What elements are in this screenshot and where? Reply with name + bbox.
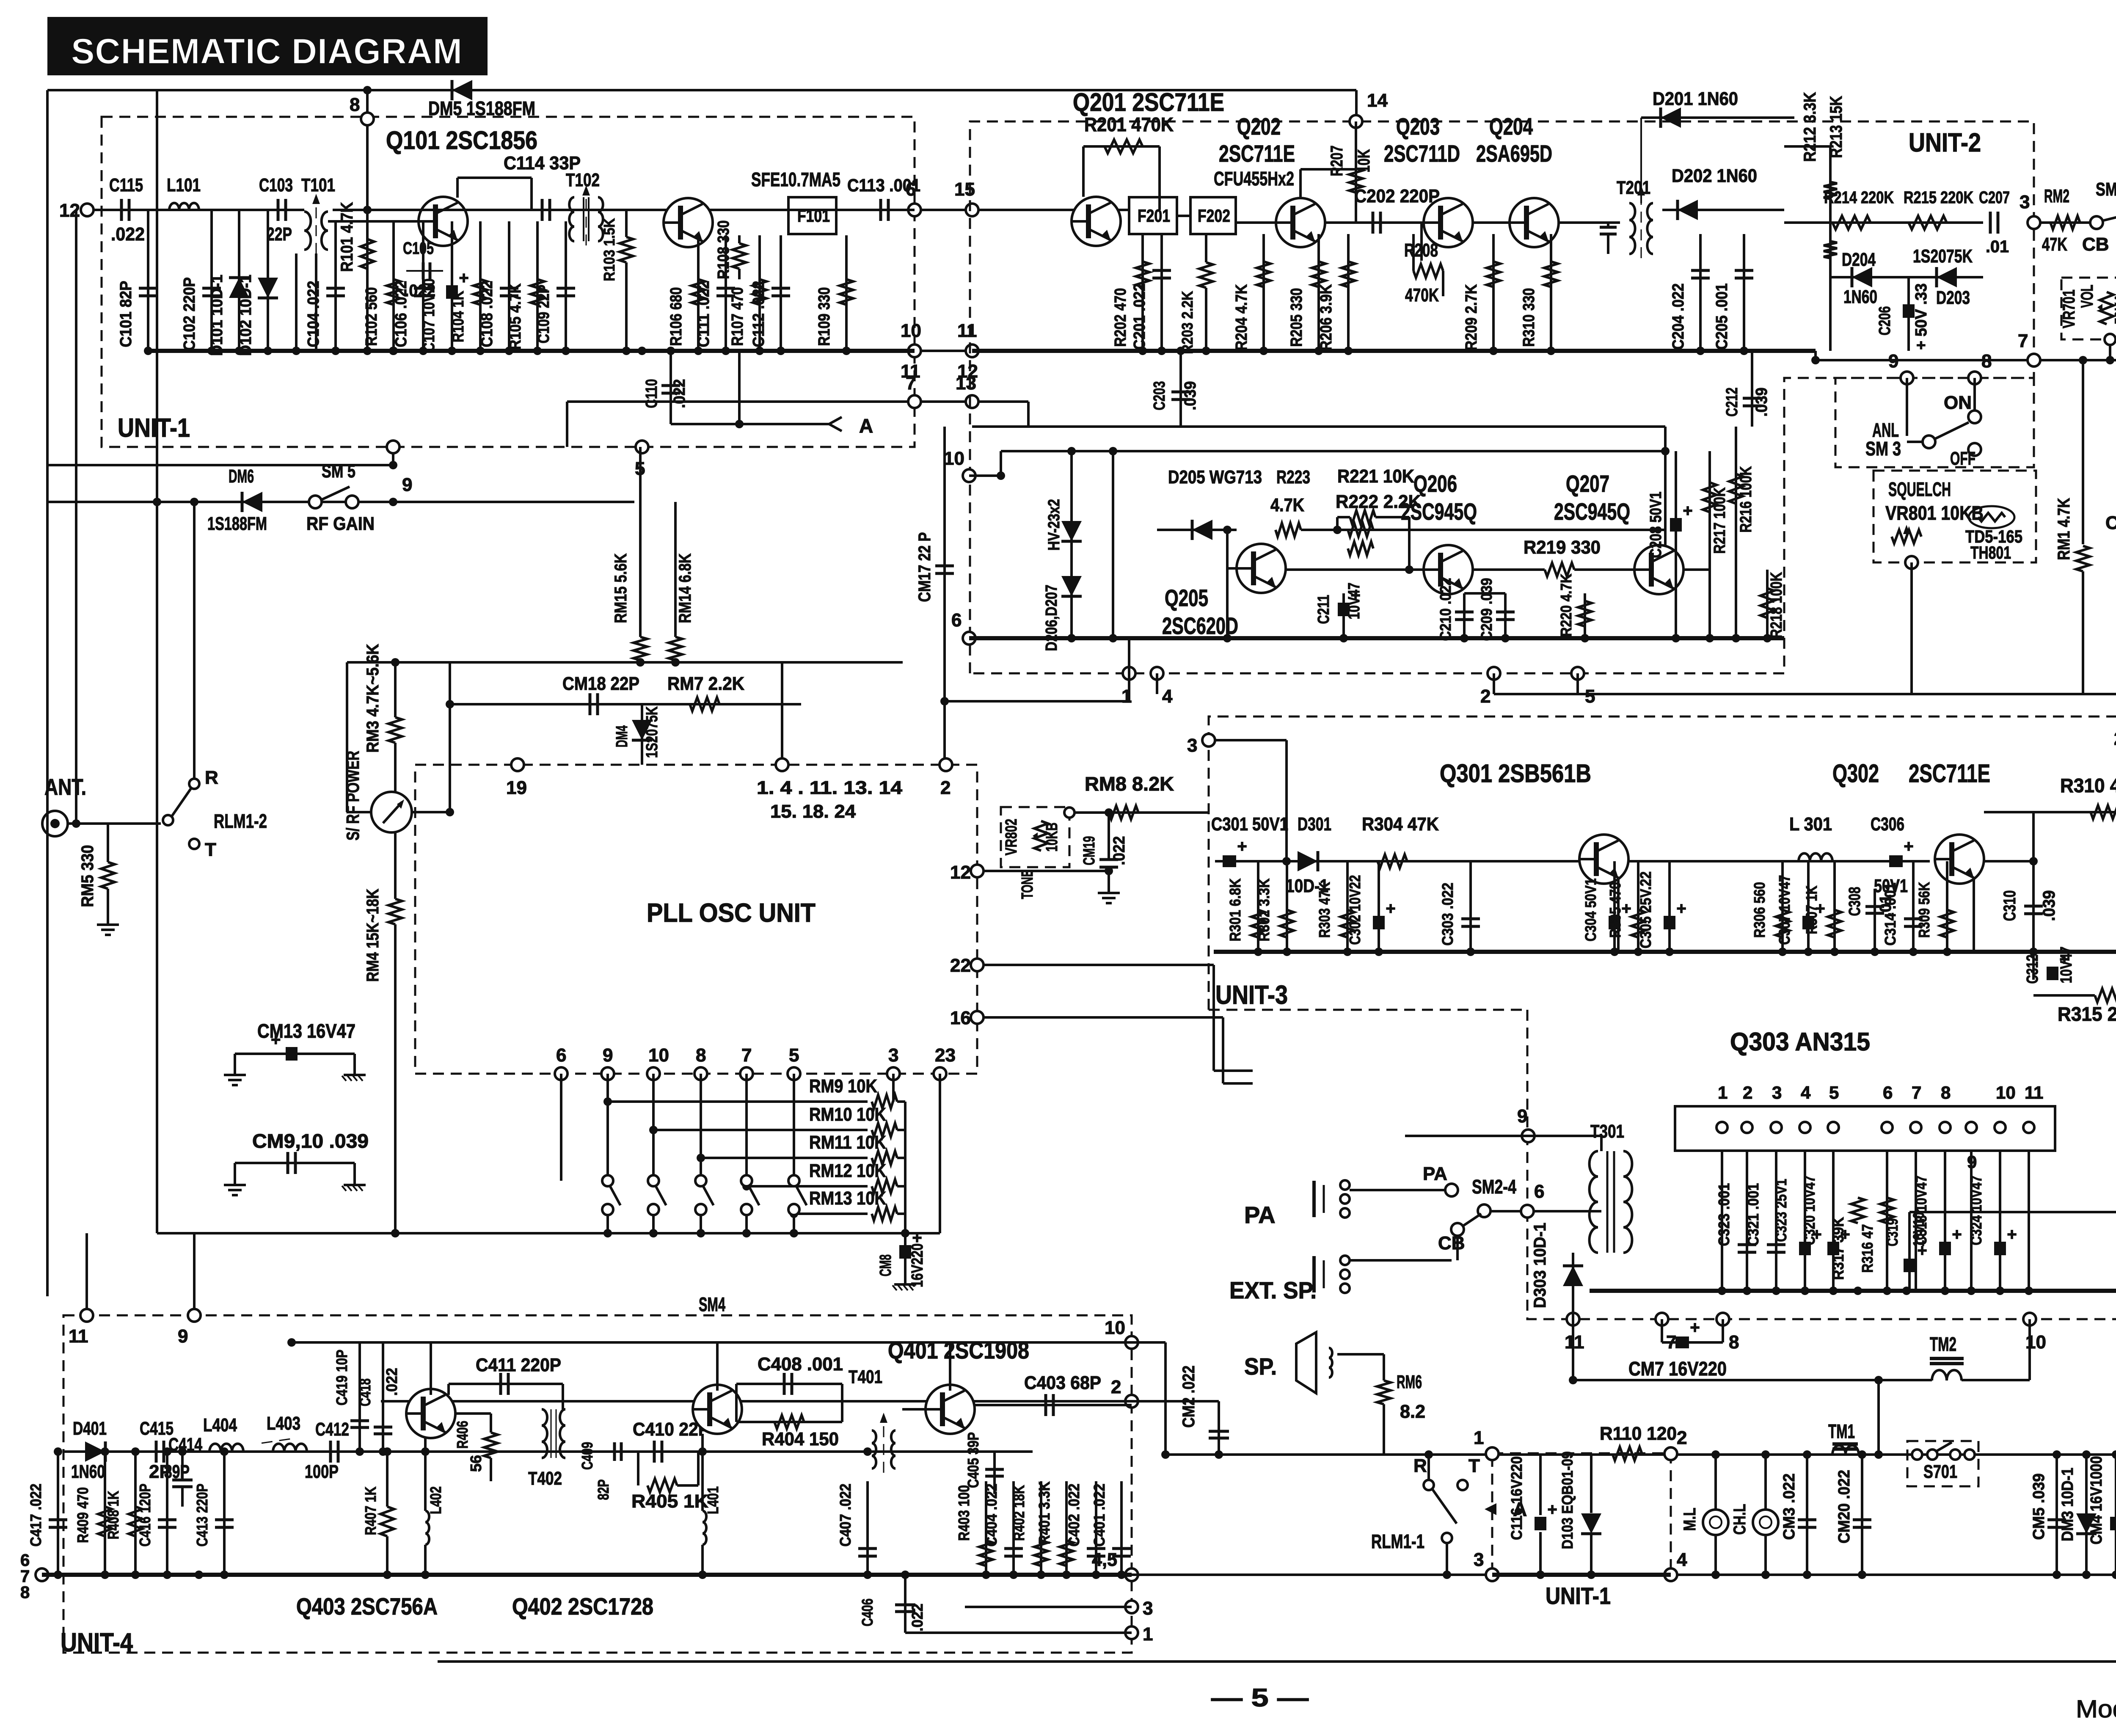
svg-text:+: + <box>1237 837 1247 856</box>
svg-text:56: 56 <box>467 1455 485 1472</box>
svg-text:R110 120: R110 120 <box>1600 1423 1677 1444</box>
svg-text:6: 6 <box>1883 1083 1893 1102</box>
svg-text:4.7K: 4.7K <box>1270 495 1304 515</box>
svg-text:D201 1N60: D201 1N60 <box>1653 88 1738 109</box>
svg-text:R216 100K: R216 100K <box>1737 466 1755 532</box>
svg-text:C419 10P: C419 10P <box>333 1350 350 1405</box>
svg-text:CM2 .022: CM2 .022 <box>1179 1366 1198 1428</box>
svg-text:R407 1K: R407 1K <box>362 1487 379 1535</box>
svg-text:CM19: CM19 <box>1080 836 1098 865</box>
svg-text:C212: C212 <box>1723 388 1741 417</box>
svg-text:4: 4 <box>1801 1083 1811 1102</box>
svg-text:T401: T401 <box>849 1367 882 1387</box>
svg-text:D204: D204 <box>1842 249 1876 270</box>
svg-text:.039: .039 <box>1182 381 1199 411</box>
svg-text:R107 470: R107 470 <box>729 287 747 346</box>
svg-text:HV-23x2: HV-23x2 <box>1045 499 1063 551</box>
svg-text:S701: S701 <box>1923 1461 1957 1482</box>
svg-text:100P: 100P <box>305 1461 339 1482</box>
svg-text:5: 5 <box>789 1045 799 1066</box>
svg-text:C409: C409 <box>579 1442 596 1470</box>
svg-text:+: + <box>271 1031 281 1049</box>
svg-text:470K: 470K <box>1405 285 1439 306</box>
svg-text:C412: C412 <box>315 1419 349 1440</box>
svg-text:9: 9 <box>402 474 412 495</box>
svg-text:2: 2 <box>1111 1377 1121 1397</box>
svg-text:D301: D301 <box>1298 814 1331 835</box>
svg-text:8: 8 <box>1981 351 1992 372</box>
svg-text:22P: 22P <box>267 224 292 245</box>
svg-text:TM2: TM2 <box>1930 1333 1956 1355</box>
svg-text:C304 50V1: C304 50V1 <box>1582 879 1599 942</box>
svg-text:+: + <box>1904 837 1913 856</box>
svg-text:R214 220K: R214 220K <box>1824 188 1894 207</box>
svg-text:R309 56K: R309 56K <box>1915 882 1933 938</box>
svg-text:Q403 2SC756A: Q403 2SC756A <box>296 1593 438 1620</box>
svg-text:+: + <box>459 269 468 287</box>
svg-text:+: + <box>2007 1225 2017 1244</box>
svg-text:C207: C207 <box>1979 188 2010 207</box>
svg-text:R305 470: R305 470 <box>1606 882 1624 938</box>
svg-text:.022: .022 <box>111 224 145 245</box>
svg-text:3: 3 <box>888 1045 898 1066</box>
svg-text:R219 330: R219 330 <box>1524 537 1601 558</box>
svg-text:RF GAIN: RF GAIN <box>306 513 375 534</box>
svg-text:D206,D207: D206,D207 <box>1043 585 1061 651</box>
svg-text:C102 220P: C102 220P <box>181 277 198 351</box>
svg-text:9: 9 <box>178 1326 188 1347</box>
svg-text:11: 11 <box>2025 1083 2043 1102</box>
svg-text:RM4 15K~18K: RM4 15K~18K <box>364 889 382 982</box>
svg-text:L402: L402 <box>427 1486 444 1514</box>
svg-text:C206: C206 <box>1876 306 1894 336</box>
svg-text:C109 22P: C109 22P <box>535 285 553 344</box>
svg-text:8: 8 <box>1941 1083 1951 1102</box>
svg-text:DM4: DM4 <box>613 725 631 747</box>
svg-text:T: T <box>205 839 216 860</box>
svg-text:+: + <box>1386 899 1395 918</box>
svg-text:3: 3 <box>1772 1083 1782 1102</box>
svg-text:16V10: 16V10 <box>1910 1212 1927 1247</box>
svg-text:R209 2.7K: R209 2.7K <box>1463 284 1480 350</box>
svg-text:RM5 330: RM5 330 <box>78 845 97 907</box>
svg-text:2SC711D: 2SC711D <box>1384 140 1460 167</box>
svg-text:C303 .022: C303 .022 <box>1439 883 1456 946</box>
svg-text:.022: .022 <box>383 1368 400 1396</box>
svg-text:6: 6 <box>556 1045 566 1066</box>
svg-text:CM18 22P: CM18 22P <box>562 673 639 694</box>
svg-text:C209 .039: C209 .039 <box>1478 578 1495 641</box>
svg-text:C201 .022: C201 .022 <box>1131 284 1149 350</box>
svg-text:1: 1 <box>1474 1427 1484 1448</box>
svg-text:DM6: DM6 <box>229 466 254 487</box>
svg-text:C111 .022: C111 .022 <box>695 281 713 347</box>
svg-text:C105: C105 <box>403 239 434 258</box>
svg-text:C115: C115 <box>109 175 143 196</box>
svg-text:R302 3.3K: R302 3.3K <box>1255 879 1273 942</box>
svg-text:2: 2 <box>940 777 951 798</box>
svg-text:C417 .022: C417 .022 <box>27 1484 44 1547</box>
svg-text:R203 2.2K: R203 2.2K <box>1179 291 1196 354</box>
svg-text:T101: T101 <box>301 175 335 196</box>
svg-text:RM15 5.6K: RM15 5.6K <box>612 553 630 623</box>
svg-text:14: 14 <box>1367 90 1388 111</box>
svg-text:16V220: 16V220 <box>909 1243 926 1287</box>
svg-text:L401: L401 <box>704 1486 722 1514</box>
svg-text:SM4: SM4 <box>699 1293 725 1315</box>
svg-text:C307 10V47: C307 10V47 <box>1776 875 1793 945</box>
svg-text:R201 470K: R201 470K <box>1084 113 1174 135</box>
svg-text:10: 10 <box>901 320 921 341</box>
svg-text:SP.: SP. <box>1244 1353 1277 1380</box>
svg-text:R404 150: R404 150 <box>762 1429 839 1449</box>
svg-text:9: 9 <box>603 1045 613 1066</box>
svg-text:Q101 2SC1856: Q101 2SC1856 <box>386 126 537 154</box>
svg-text:R310 330: R310 330 <box>1520 288 1538 347</box>
svg-text:RM6: RM6 <box>1397 1372 1422 1392</box>
svg-text:R316 47: R316 47 <box>1859 1224 1876 1273</box>
svg-text:RM3 4.7K~5.6K: RM3 4.7K~5.6K <box>364 644 382 752</box>
svg-text:Q207: Q207 <box>1566 470 1609 497</box>
svg-text:OFF: OFF <box>1950 448 1975 469</box>
svg-text:PLL OSC UNIT: PLL OSC UNIT <box>647 898 816 928</box>
svg-text:.039: .039 <box>1753 388 1771 417</box>
svg-text:RM7 2.2K: RM7 2.2K <box>667 673 744 694</box>
svg-text:VR701: VR701 <box>2060 289 2078 328</box>
svg-text:R402 18K: R402 18K <box>1010 1485 1028 1541</box>
svg-text:ANT.: ANT. <box>44 774 86 800</box>
svg-text:R106 680: R106 680 <box>667 287 685 346</box>
svg-text:C312: C312 <box>2024 955 2042 984</box>
svg-text:C408 .001: C408 .001 <box>758 1354 843 1375</box>
svg-text:R208: R208 <box>1404 240 1438 261</box>
svg-text:CM5 .039: CM5 .039 <box>2030 1474 2048 1540</box>
svg-text:Q206: Q206 <box>1413 470 1457 497</box>
svg-text:CM8: CM8 <box>877 1254 895 1276</box>
svg-text:RM10 10K: RM10 10K <box>809 1104 886 1125</box>
svg-text:C403 68P: C403 68P <box>1024 1372 1101 1393</box>
svg-text:C208 50V1: C208 50V1 <box>1647 492 1665 558</box>
svg-text:R: R <box>205 767 218 788</box>
svg-text:1S188FM: 1S188FM <box>207 513 267 534</box>
svg-text:10: 10 <box>1996 1083 2016 1102</box>
svg-text:C406: C406 <box>859 1598 876 1626</box>
svg-text:CB: CB <box>1438 1233 1465 1254</box>
svg-text:C418: C418 <box>356 1378 374 1406</box>
svg-text:C107 10V10: C107 10V10 <box>420 278 438 352</box>
svg-text:11: 11 <box>957 320 977 341</box>
svg-text:50KA: 50KA <box>2112 294 2116 325</box>
svg-text:8: 8 <box>350 94 360 115</box>
svg-text:R103 1.5K: R103 1.5K <box>601 218 618 281</box>
svg-text:C401 .022: C401 .022 <box>1091 1484 1108 1547</box>
svg-text:13: 13 <box>956 373 976 394</box>
svg-text:R108 330: R108 330 <box>715 220 733 279</box>
svg-text:D401: D401 <box>73 1418 107 1439</box>
svg-text:C310: C310 <box>2000 890 2019 921</box>
svg-text:R223: R223 <box>1276 467 1310 488</box>
svg-text:2: 2 <box>1677 1427 1687 1448</box>
svg-text:Q401 2SC1908: Q401 2SC1908 <box>888 1337 1029 1364</box>
svg-text:10: 10 <box>1105 1317 1125 1338</box>
svg-text:5: 5 <box>1585 686 1595 707</box>
svg-text:23: 23 <box>935 1045 956 1066</box>
svg-text:DM3 10D-1: DM3 10D-1 <box>2059 1468 2077 1541</box>
svg-text:S/ RF POWER: S/ RF POWER <box>343 751 363 840</box>
svg-text:R205 330: R205 330 <box>1288 288 1306 347</box>
svg-text:+: + <box>1676 899 1686 918</box>
svg-text:ON: ON <box>1944 392 1972 413</box>
svg-text:RM11 10K: RM11 10K <box>809 1132 886 1153</box>
svg-text:T402: T402 <box>528 1468 562 1489</box>
svg-text:SQUELCH: SQUELCH <box>1888 478 1951 500</box>
svg-text:C320 10V47: C320 10V47 <box>1801 1176 1818 1246</box>
svg-text:C113 .001: C113 .001 <box>847 175 920 195</box>
svg-text:D303 10D-1: D303 10D-1 <box>1531 1223 1549 1308</box>
svg-text:C108 .022: C108 .022 <box>478 281 496 347</box>
svg-text:Model: Model <box>2076 1695 2116 1723</box>
svg-text:22: 22 <box>950 955 971 976</box>
svg-text:Q204: Q204 <box>1489 113 1533 140</box>
svg-text:2: 2 <box>1743 1083 1752 1102</box>
svg-text:R220 4.7K: R220 4.7K <box>1557 574 1575 637</box>
svg-text:+ 50V .33: + 50V .33 <box>1912 284 1930 350</box>
svg-text:C305 25V.22: C305 25V.22 <box>1637 871 1654 948</box>
svg-text:M.L: M.L <box>1681 1508 1699 1531</box>
svg-text:SM2-4: SM2-4 <box>1472 1176 1516 1198</box>
svg-text:R213 15K: R213 15K <box>1827 96 1846 158</box>
svg-text:10: 10 <box>648 1045 669 1066</box>
svg-text:Q303 AN315: Q303 AN315 <box>1730 1028 1870 1056</box>
svg-text:9: 9 <box>1888 351 1898 372</box>
svg-text:A: A <box>859 415 873 437</box>
svg-text:D205 WG713: D205 WG713 <box>1168 467 1262 488</box>
svg-text:12: 12 <box>950 862 971 883</box>
svg-text:R317 39K: R317 39K <box>1829 1217 1847 1280</box>
svg-text:R109 330: R109 330 <box>816 287 833 346</box>
svg-text:1. 4 . 11. 13. 14: 1. 4 . 11. 13. 14 <box>757 777 903 798</box>
svg-text:C210 .022: C210 .022 <box>1437 578 1454 641</box>
svg-text:Q301 2SB561B: Q301 2SB561B <box>1440 759 1591 788</box>
svg-text:L403: L403 <box>267 1413 300 1434</box>
svg-text:10V47: 10V47 <box>1345 583 1363 620</box>
svg-text:1N60: 1N60 <box>1843 287 1877 307</box>
svg-text:RM2: RM2 <box>2044 186 2069 207</box>
svg-text:UNIT-1: UNIT-1 <box>118 413 190 443</box>
svg-text:UNIT-2: UNIT-2 <box>1909 128 1981 157</box>
svg-text:C308: C308 <box>1846 887 1864 916</box>
svg-text:R105 4.7K: R105 4.7K <box>507 283 524 350</box>
svg-text:R406: R406 <box>454 1421 471 1449</box>
svg-text:1S2075K: 1S2075K <box>1913 246 1973 267</box>
svg-text:T: T <box>1469 1455 1480 1476</box>
svg-text:R403 100: R403 100 <box>955 1485 973 1541</box>
svg-text:C202 220P: C202 220P <box>1354 186 1440 207</box>
svg-text:+: + <box>1683 502 1692 520</box>
svg-text:R315 2.2K: R315 2.2K <box>2058 1003 2116 1025</box>
svg-text:10: 10 <box>944 448 964 469</box>
svg-text:11: 11 <box>69 1326 88 1347</box>
svg-text:PA: PA <box>1244 1201 1276 1228</box>
svg-text:5: 5 <box>1829 1083 1839 1102</box>
svg-text:11: 11 <box>1565 1332 1584 1353</box>
svg-text:C112 .022: C112 .022 <box>750 281 768 347</box>
svg-text:R304 47K: R304 47K <box>1362 814 1439 835</box>
svg-text:C323 25V1: C323 25V1 <box>1772 1179 1790 1242</box>
svg-text:+: + <box>1952 1225 1962 1244</box>
svg-text:R301 6.8K: R301 6.8K <box>1226 879 1244 942</box>
svg-text:2SC711E: 2SC711E <box>1909 759 1990 788</box>
svg-text:2SC945Q: 2SC945Q <box>1401 498 1477 525</box>
svg-text:2SC711E: 2SC711E <box>1219 140 1295 167</box>
svg-text:PA: PA <box>1423 1163 1447 1184</box>
svg-text:2: 2 <box>1480 686 1491 707</box>
svg-text:RM8 8.2K: RM8 8.2K <box>1085 773 1174 795</box>
svg-text:Q302: Q302 <box>1832 759 1879 788</box>
svg-text:C302 10V22: C302 10V22 <box>1346 875 1364 945</box>
svg-text:RM14 6.8K: RM14 6.8K <box>676 553 694 623</box>
svg-text:7: 7 <box>741 1045 752 1066</box>
svg-text:C110: C110 <box>643 379 661 408</box>
svg-text:R307 1K: R307 1K <box>1803 886 1820 934</box>
svg-text:C405 39P: C405 39P <box>964 1432 982 1488</box>
svg-text:Q402 2SC1728: Q402 2SC1728 <box>512 1593 653 1620</box>
svg-text:R405 1K: R405 1K <box>631 1491 708 1512</box>
svg-text:F101: F101 <box>797 206 830 226</box>
svg-text:.01: .01 <box>1877 895 1895 917</box>
svg-text:C416 120P: C416 120P <box>136 1484 154 1547</box>
svg-text:CM3 .022: CM3 .022 <box>1780 1474 1798 1540</box>
svg-text:R408 1K: R408 1K <box>105 1491 122 1540</box>
svg-text:R215 220K: R215 220K <box>1904 188 1973 207</box>
svg-text:R310 4.7K: R310 4.7K <box>2060 774 2116 796</box>
svg-text:C204 .022: C204 .022 <box>1670 284 1687 350</box>
svg-text:2SC945Q: 2SC945Q <box>1554 498 1630 525</box>
svg-text:C321 .001: C321 .001 <box>1744 1183 1762 1246</box>
svg-text:8: 8 <box>20 1583 30 1602</box>
svg-text:T102: T102 <box>566 170 600 190</box>
svg-text:7: 7 <box>1912 1083 1921 1102</box>
svg-text:CM20 .022: CM20 .022 <box>1835 1470 1853 1543</box>
svg-text:.022: .022 <box>909 1604 926 1631</box>
svg-text:C306: C306 <box>1871 814 1904 835</box>
svg-text:R104 1K: R104 1K <box>449 291 467 342</box>
svg-text:3: 3 <box>1474 1549 1484 1570</box>
svg-text:82P: 82P <box>595 1480 612 1500</box>
svg-text:10V47: 10V47 <box>2058 947 2075 984</box>
svg-text:D102 10D-1: D102 10D-1 <box>237 275 255 356</box>
svg-text:R401 3.3K: R401 3.3K <box>1036 1482 1053 1545</box>
svg-text:2: 2 <box>2114 728 2116 749</box>
svg-text:15. 18. 24: 15. 18. 24 <box>770 801 856 822</box>
svg-text:SM2-1: SM2-1 <box>2096 179 2116 200</box>
svg-text:47K: 47K <box>2042 234 2067 255</box>
svg-text:R217 100K: R217 100K <box>1711 487 1729 554</box>
svg-text:R303 47K: R303 47K <box>1316 882 1333 938</box>
svg-text:1: 1 <box>1143 1624 1153 1645</box>
svg-text:F202: F202 <box>1198 206 1230 226</box>
svg-text:D203: D203 <box>1936 287 1970 308</box>
svg-text:D103 EQB01-09: D103 EQB01-09 <box>1559 1452 1576 1549</box>
svg-text:UNIT-1: UNIT-1 <box>1546 1582 1611 1609</box>
svg-text:9: 9 <box>1517 1106 1527 1127</box>
svg-text:EXT. SP.: EXT. SP. <box>1229 1277 1317 1303</box>
svg-text:4: 4 <box>1162 686 1173 707</box>
svg-text:2SA695D: 2SA695D <box>1476 140 1552 167</box>
svg-text:SM 3: SM 3 <box>1865 438 1901 460</box>
svg-text:F201: F201 <box>1138 206 1170 226</box>
svg-text:+: + <box>1547 1500 1557 1519</box>
svg-text:1N60: 1N60 <box>71 1461 105 1482</box>
svg-text:C106 .022: C106 .022 <box>392 281 410 347</box>
svg-text:C402 .022: C402 .022 <box>1065 1484 1083 1547</box>
svg-text:C413 220P: C413 220P <box>193 1484 211 1547</box>
svg-text:Q203: Q203 <box>1396 113 1440 140</box>
svg-text:1: 1 <box>1718 1083 1728 1102</box>
svg-text:C103: C103 <box>259 175 293 196</box>
svg-text:C301 50V1: C301 50V1 <box>1211 814 1288 835</box>
svg-text:Q202: Q202 <box>1237 113 1281 140</box>
svg-text:R306 560: R306 560 <box>1751 882 1768 938</box>
svg-text:RM1 4.7K: RM1 4.7K <box>2055 498 2073 560</box>
svg-text:6: 6 <box>951 610 962 631</box>
svg-text:R221 10K: R221 10K <box>1337 466 1414 487</box>
svg-text:CB: CB <box>2082 234 2109 255</box>
svg-text:.039: .039 <box>2040 890 2058 921</box>
svg-text:CM9,10 .039: CM9,10 .039 <box>252 1130 369 1152</box>
svg-text:CFU455Hx2: CFU455Hx2 <box>1214 168 1294 190</box>
svg-text:C407 .022: C407 .022 <box>837 1484 854 1547</box>
svg-text:R218 100K: R218 100K <box>1768 572 1785 638</box>
svg-text:R204 4.7K: R204 4.7K <box>1233 284 1251 350</box>
svg-text:.022: .022 <box>1110 836 1128 865</box>
svg-text:8: 8 <box>696 1045 706 1066</box>
svg-text:RLM1-2: RLM1-2 <box>214 810 267 832</box>
svg-text:4: 4 <box>1677 1549 1687 1570</box>
svg-text:16: 16 <box>950 1008 971 1028</box>
svg-text:R101 4.7K: R101 4.7K <box>338 202 356 272</box>
svg-text:C205 .001: C205 .001 <box>1713 284 1731 350</box>
svg-text:C101 82P: C101 82P <box>117 281 135 347</box>
svg-text:R202 470: R202 470 <box>1112 288 1130 347</box>
svg-text:C211: C211 <box>1315 595 1333 624</box>
svg-text:R102 560: R102 560 <box>363 287 380 346</box>
svg-text:UNIT-3: UNIT-3 <box>1215 981 1288 1010</box>
svg-text:TH801: TH801 <box>1970 543 2011 562</box>
svg-text:C203: C203 <box>1151 381 1168 411</box>
svg-text:10KB: 10KB <box>1043 823 1061 852</box>
svg-text:.01: .01 <box>1986 237 2009 256</box>
svg-text:— 5 —: — 5 — <box>1211 1684 1309 1712</box>
svg-text:C319: C319 <box>1884 1218 1901 1246</box>
svg-text:RLM1-1: RLM1-1 <box>1371 1530 1424 1552</box>
svg-text:10K: 10K <box>1355 149 1373 172</box>
svg-text:D202 1N60: D202 1N60 <box>1672 165 1757 186</box>
svg-text:T301: T301 <box>1590 1121 1624 1142</box>
svg-text:CM4 16V1000: CM4 16V1000 <box>2088 1456 2105 1545</box>
svg-text:SFE10.7MA5: SFE10.7MA5 <box>751 168 840 190</box>
svg-text:L101: L101 <box>167 175 201 196</box>
svg-text:T201: T201 <box>1617 177 1650 198</box>
svg-text:6: 6 <box>1534 1181 1544 1202</box>
svg-text:R206 3.9K: R206 3.9K <box>1317 284 1335 350</box>
svg-text:15: 15 <box>954 179 975 200</box>
svg-text:R409 470: R409 470 <box>74 1487 91 1543</box>
svg-text:R: R <box>1413 1455 1427 1476</box>
svg-text:TM1: TM1 <box>1828 1420 1855 1442</box>
svg-text:CM17 22 P: CM17 22 P <box>915 532 934 602</box>
svg-text:C104 .022: C104 .022 <box>305 281 322 347</box>
